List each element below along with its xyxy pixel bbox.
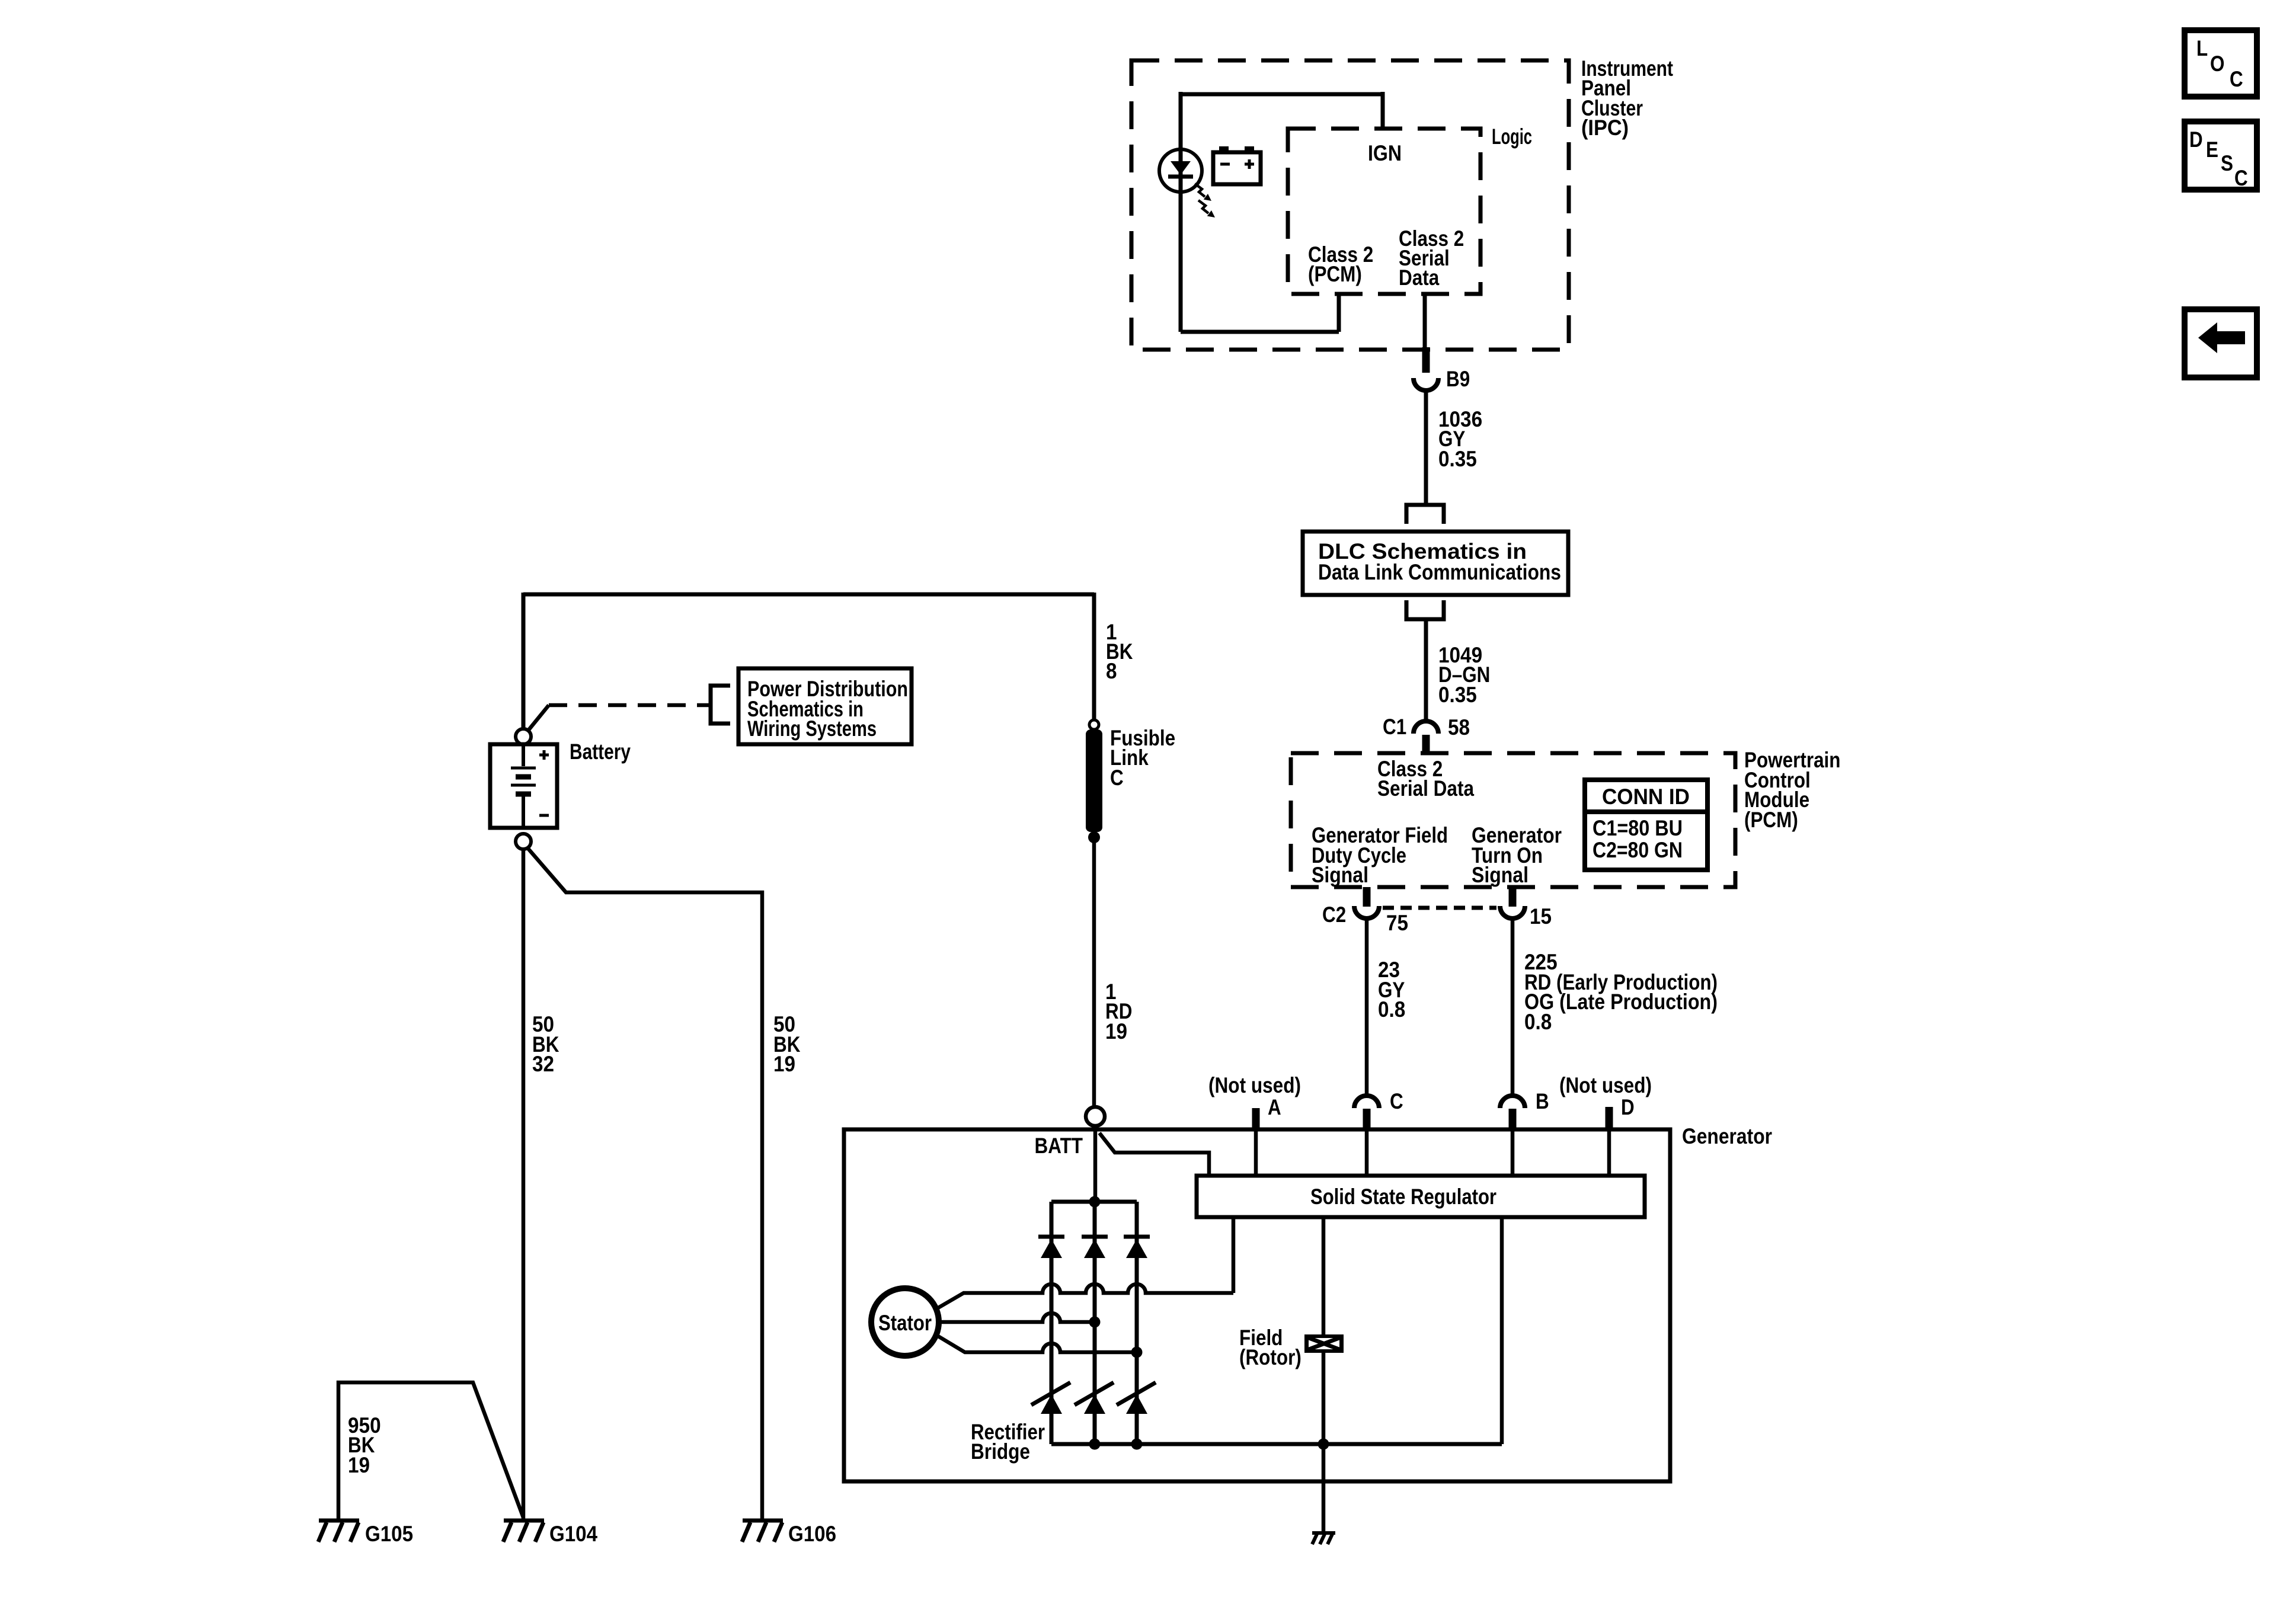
label 1 BK 8 xyxy=(1106,620,1133,683)
label G105 xyxy=(365,1522,413,1546)
wire down to battery plus xyxy=(522,593,526,729)
wire 950 BK 19 loop xyxy=(338,1382,523,1521)
connector C1 pin stub xyxy=(1422,735,1430,754)
label BATT xyxy=(1035,1134,1083,1158)
indicator LED circle xyxy=(1159,149,1202,192)
fusible link C element xyxy=(1086,729,1102,832)
svg-text:58: 58 xyxy=(1448,715,1470,740)
rectifier vertical 2 xyxy=(1093,1202,1097,1444)
wire minus diagonal to 50BK19 xyxy=(528,849,762,1521)
label 50 BK 32 xyxy=(532,1012,559,1076)
PCM dashed box xyxy=(1291,753,1735,887)
diode D2 top xyxy=(1082,1235,1108,1239)
diode D6 bottom slash xyxy=(1117,1382,1156,1405)
off-page bracket above DLC xyxy=(1406,505,1444,524)
svg-text:0.35: 0.35 xyxy=(1438,683,1477,707)
wire 1049 xyxy=(1424,619,1428,722)
wire pin D to regulator xyxy=(1607,1130,1611,1176)
svg-text:Stator: Stator xyxy=(878,1311,932,1335)
DLC reference box xyxy=(1303,532,1568,595)
back-arrow box xyxy=(2185,309,2257,377)
connector C1 arc xyxy=(1414,721,1438,734)
ground G104 xyxy=(503,1521,544,1542)
back-arrow icon xyxy=(2198,322,2245,353)
connector face dashed line xyxy=(1383,906,1496,910)
svg-text:G106: G106 xyxy=(788,1522,836,1546)
label Battery xyxy=(570,740,631,764)
label Rectifier Bridge xyxy=(971,1420,1045,1464)
label C xyxy=(1390,1089,1403,1113)
dashed wire to power distribution xyxy=(528,705,549,731)
battery + mark xyxy=(539,750,549,760)
label Generator Field Duty Cycle Signal xyxy=(1312,823,1448,887)
label Class 2 Serial Data xyxy=(1399,226,1464,290)
battery box xyxy=(490,744,557,828)
battery telltale icon xyxy=(1213,152,1261,184)
svg-text:C1=80 BU: C1=80 BU xyxy=(1593,816,1683,840)
svg-text:E: E xyxy=(2206,137,2218,162)
BATT terminal circle xyxy=(1086,1107,1105,1126)
svg-text:G104: G104 xyxy=(549,1522,597,1546)
svg-text:Generator: Generator xyxy=(1682,1124,1772,1148)
label Logic xyxy=(1492,124,1532,149)
rectifier vertical 1 xyxy=(1050,1202,1054,1444)
svg-text:(Not used): (Not used) xyxy=(1208,1073,1301,1097)
wire pin A to regulator xyxy=(1254,1130,1258,1176)
wire IPC top horizontal xyxy=(1181,92,1383,97)
svg-text:L: L xyxy=(2196,36,2208,60)
solid state regulator box xyxy=(1197,1176,1645,1217)
wire 1 BK 8 vertical xyxy=(1092,593,1096,721)
label Field (Rotor) xyxy=(1239,1326,1302,1369)
svg-text:Solid State Regulator: Solid State Regulator xyxy=(1310,1185,1496,1209)
label Class 2 (PCM) xyxy=(1308,242,1373,286)
diode D3 top xyxy=(1124,1235,1150,1239)
svg-text:(PCM): (PCM) xyxy=(1744,808,1798,832)
wire LED anode xyxy=(1179,92,1183,152)
wire LED cathode down xyxy=(1179,177,1183,332)
svg-text:BATT: BATT xyxy=(1035,1134,1083,1158)
svg-text:0.35: 0.35 xyxy=(1438,447,1477,471)
svg-text:Battery: Battery xyxy=(570,740,631,764)
label G106 xyxy=(788,1522,836,1546)
wire field to ground xyxy=(1322,1353,1326,1533)
svg-text:(IPC): (IPC) xyxy=(1581,116,1629,140)
generator box xyxy=(844,1129,1670,1481)
wire 50 BK 32 vertical xyxy=(522,849,526,1521)
svg-text:B: B xyxy=(1536,1089,1549,1113)
connector C pin stub xyxy=(1363,1109,1371,1130)
connector C2 arc xyxy=(1354,906,1379,918)
junction dot BATT rail xyxy=(1089,1196,1101,1208)
svg-text:C2: C2 xyxy=(1322,902,1346,927)
svg-text:Data: Data xyxy=(1399,265,1440,290)
label B9 xyxy=(1446,367,1470,391)
label C2 xyxy=(1322,902,1346,927)
field (rotor) coil symbol xyxy=(1304,1334,1344,1353)
svg-text:8: 8 xyxy=(1106,659,1117,683)
wire 1 RD 19 xyxy=(1092,837,1096,1107)
stator phase A wire with hops xyxy=(938,1284,1233,1308)
svg-text:C: C xyxy=(2234,166,2248,190)
label 23 GY 0.8 xyxy=(1378,958,1405,1022)
svg-text:D: D xyxy=(1621,1095,1635,1119)
label G104 xyxy=(549,1522,597,1546)
label Instrument Panel Cluster (IPC) xyxy=(1581,56,1673,140)
wire IGN drop xyxy=(1381,92,1385,129)
label IGN xyxy=(1368,141,1402,165)
svg-text:CONN ID: CONN ID xyxy=(1602,785,1690,809)
label Stator xyxy=(878,1311,932,1335)
svg-text:D: D xyxy=(2189,127,2203,152)
label C1 xyxy=(1383,715,1406,739)
ground G106 xyxy=(742,1521,783,1542)
battery plus terminal circle xyxy=(516,729,531,744)
fusible link bottom dot xyxy=(1088,831,1100,843)
label Solid State Regulator xyxy=(1310,1185,1496,1209)
LED diode triangle xyxy=(1171,161,1191,175)
IPC dashed box xyxy=(1131,60,1569,350)
junction dot phase C xyxy=(1131,1347,1143,1358)
wire 1036 xyxy=(1424,391,1428,505)
svg-text:32: 32 xyxy=(532,1052,554,1076)
rectifier top rail xyxy=(1051,1200,1137,1204)
label C1=80 BU xyxy=(1593,816,1683,840)
Logic dashed box xyxy=(1288,129,1480,294)
label C2=80 GN xyxy=(1593,838,1683,862)
connector B9 arc xyxy=(1414,378,1438,391)
svg-text:G105: G105 xyxy=(365,1522,413,1546)
ground (generator field) xyxy=(1312,1533,1335,1544)
wire up into logic box xyxy=(1337,292,1341,332)
svg-text:(Not used): (Not used) xyxy=(1559,1073,1652,1097)
svg-text:Signal: Signal xyxy=(1312,863,1368,887)
svg-text:(PCM): (PCM) xyxy=(1308,262,1362,286)
label 225 RD/OG 0.8 xyxy=(1524,950,1718,1034)
bracket at power distribution xyxy=(711,686,730,724)
diode D1 top xyxy=(1038,1235,1064,1239)
svg-text:A: A xyxy=(1268,1095,1281,1119)
svg-text:Data Link Communications: Data Link Communications xyxy=(1318,560,1561,584)
power distribution text xyxy=(747,677,908,741)
connector B pin stub xyxy=(1509,1109,1517,1130)
svg-text:IGN: IGN xyxy=(1368,141,1402,165)
svg-text:C2=80 GN: C2=80 GN xyxy=(1593,838,1683,862)
wire pin C to regulator xyxy=(1365,1130,1369,1176)
wire regulator right leg xyxy=(1500,1217,1504,1444)
stator phase B wire xyxy=(939,1313,1095,1322)
label 950 BK 19 xyxy=(348,1413,381,1477)
svg-text:(Rotor): (Rotor) xyxy=(1239,1345,1302,1369)
power distribution reference box xyxy=(738,668,912,744)
off-page bracket below DLC xyxy=(1406,600,1444,619)
LOC box xyxy=(2185,30,2257,97)
DESC box xyxy=(2185,121,2257,190)
label 1049 D-GN 0.35 xyxy=(1438,643,1490,707)
svg-text:C: C xyxy=(1390,1089,1403,1113)
ground G105 xyxy=(318,1521,359,1542)
label B xyxy=(1536,1089,1549,1113)
diode D4 bottom slash xyxy=(1031,1382,1070,1405)
svg-text:C: C xyxy=(1110,766,1124,790)
label (Not used) left xyxy=(1208,1073,1301,1097)
stator circle xyxy=(871,1288,939,1356)
LED emission arrows xyxy=(1195,184,1208,213)
label 75 xyxy=(1386,911,1408,935)
label Generator Turn On Signal xyxy=(1472,823,1562,887)
svg-text:19: 19 xyxy=(773,1052,795,1076)
LED cathode bar xyxy=(1168,175,1193,179)
junction dots bottom rail xyxy=(1089,1439,1101,1450)
wire bottom horizontal to logic xyxy=(1181,330,1339,334)
label 50 BK 19 xyxy=(773,1012,801,1076)
label 15 xyxy=(1530,904,1552,929)
svg-text:C: C xyxy=(2230,67,2243,91)
wire BATT diagonal to regulator xyxy=(1099,1133,1209,1176)
wire battery feed top horizontal xyxy=(523,593,1094,597)
label 58 xyxy=(1448,715,1470,740)
svg-text:0.8: 0.8 xyxy=(1524,1010,1552,1034)
rectifier bottom rail xyxy=(1051,1442,1502,1446)
connector C2 pin stub xyxy=(1363,887,1371,907)
junction dot phase B xyxy=(1089,1317,1101,1328)
wire 23 GY xyxy=(1365,918,1369,1096)
label A xyxy=(1268,1095,1281,1119)
svg-text:75: 75 xyxy=(1386,911,1408,935)
label D xyxy=(1621,1095,1635,1119)
svg-text:OG (Late Production): OG (Late Production) xyxy=(1524,990,1718,1014)
svg-text:O: O xyxy=(2210,52,2225,76)
wire pin B to regulator xyxy=(1511,1130,1515,1176)
wire regulator to top phase xyxy=(1232,1217,1236,1293)
svg-text:19: 19 xyxy=(1105,1019,1127,1044)
svg-text:19: 19 xyxy=(348,1453,370,1477)
svg-text:C1: C1 xyxy=(1383,715,1406,739)
connector 15 arc xyxy=(1500,906,1525,918)
LOC letters xyxy=(2196,36,2243,91)
battery minus terminal circle xyxy=(516,834,531,849)
generator pin D stub xyxy=(1606,1107,1613,1130)
CONN ID divider xyxy=(1585,809,1707,814)
generator pin A stub xyxy=(1252,1108,1260,1130)
svg-text:B9: B9 xyxy=(1446,367,1470,391)
battery B+ plate stack xyxy=(522,744,525,766)
fusible link top circle xyxy=(1089,720,1099,729)
svg-text:S: S xyxy=(2221,151,2233,175)
diode D5 bottom slash xyxy=(1075,1382,1114,1405)
label 1036 GY 0.35 xyxy=(1438,407,1482,471)
DLC box text xyxy=(1318,539,1561,584)
label (Not used) right xyxy=(1559,1073,1652,1097)
CONN ID box xyxy=(1585,780,1707,870)
svg-text:0.8: 0.8 xyxy=(1378,997,1405,1022)
svg-text:Signal: Signal xyxy=(1472,863,1528,887)
wire 225 xyxy=(1511,918,1515,1096)
LED wire through xyxy=(1179,152,1183,177)
wire class2 serial data inside IPC xyxy=(1423,292,1427,348)
wire BATT down xyxy=(1093,1126,1098,1202)
connector B arc xyxy=(1500,1096,1525,1108)
label Generator xyxy=(1682,1124,1772,1148)
svg-text:Serial Data: Serial Data xyxy=(1377,776,1474,801)
label Class 2 Serial Data (PCM) xyxy=(1377,757,1474,801)
DESC letters xyxy=(2189,127,2248,190)
connector C arc xyxy=(1354,1096,1379,1108)
battery - mark xyxy=(539,814,549,817)
label CONN ID xyxy=(1602,785,1690,809)
label Powertrain Control Module (PCM) xyxy=(1744,748,1841,832)
svg-text:Bridge: Bridge xyxy=(971,1439,1030,1464)
rectifier vertical 3 xyxy=(1135,1202,1139,1444)
svg-text:15: 15 xyxy=(1530,904,1552,929)
svg-text:Logic: Logic xyxy=(1492,124,1532,149)
connector B9 pin stub xyxy=(1422,347,1430,373)
stator phase C wire xyxy=(938,1336,1137,1352)
label Fusible Link C xyxy=(1110,726,1175,790)
connector 15 pin stub xyxy=(1509,887,1517,907)
wire regulator to field xyxy=(1322,1217,1326,1334)
label 1 RD 19 xyxy=(1105,980,1132,1044)
svg-text:Wiring Systems: Wiring Systems xyxy=(747,716,877,741)
